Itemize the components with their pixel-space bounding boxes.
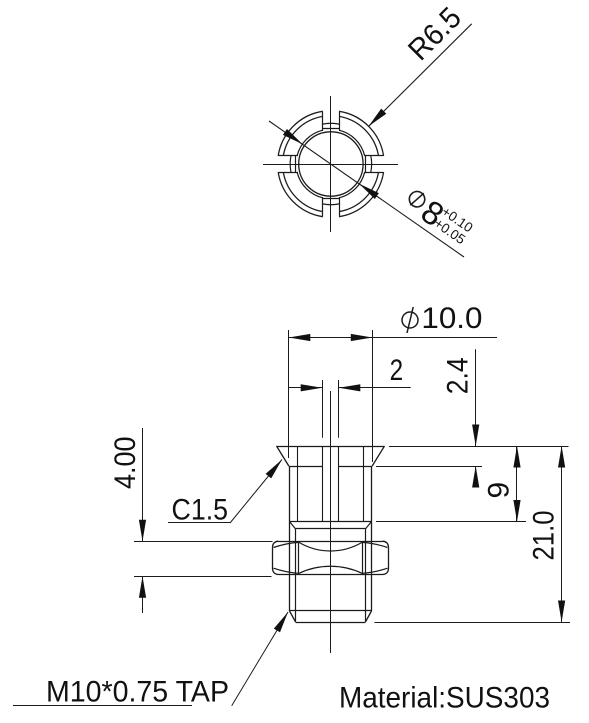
thread chamfer bottom line [296, 528, 366, 530]
svg-text:9: 9 [482, 482, 515, 499]
arrowheads 21.0 [558, 446, 565, 468]
bore circle (dia 8) [299, 132, 363, 196]
extension line bottom 21.0 [374, 622, 570, 624]
svg-text:M10*0.75 TAP: M10*0.75 TAP [46, 676, 229, 709]
dimension line 2 [289, 387, 322, 389]
slot edge left [322, 446, 324, 522]
bore line left [297, 446, 299, 522]
sleeve bottom line (slot bottom, 9 from top) [290, 521, 372, 523]
underline C1.5 [168, 522, 230, 524]
bottom chamfer right [365, 611, 371, 622]
flange top edge [277, 446, 385, 448]
diameter leader line dia 8 [269, 121, 464, 257]
svg-text:10.0: 10.0 [421, 302, 482, 335]
extension line 9 [376, 521, 526, 523]
body left edge (dia 10) [289, 466, 291, 611]
flange chamfer right [372, 446, 384, 466]
hex nut bottom edge [279, 574, 383, 576]
top view vertical centerline [330, 96, 332, 232]
hex right flat [388, 547, 390, 568]
svg-text:4.00: 4.00 [109, 437, 142, 490]
slot edges and slot end lines (4 slots) [364, 172, 384, 174]
bottom chamfer left [290, 611, 296, 622]
svg-text:21.0: 21.0 [527, 511, 560, 561]
arrowheads 2 [301, 384, 323, 391]
extension lines dia 10.0 [288, 330, 290, 458]
extension line 2.4 [376, 466, 482, 468]
extension lines for slot width 2 [322, 380, 324, 438]
leader line R6.5 [369, 24, 472, 127]
bore line right [363, 446, 365, 522]
hex nut top edge [279, 541, 383, 543]
flange underside left [289, 466, 323, 468]
svg-text:Material:SUS303: Material:SUS303 [339, 682, 550, 715]
svg-text:2: 2 [390, 354, 404, 387]
arrowhead R6.5 [369, 109, 387, 127]
extension line top (flange) [389, 446, 569, 448]
underline M10 [13, 705, 192, 707]
arrowhead M10 [274, 612, 288, 632]
arrowhead C1.5 [266, 460, 282, 479]
body right edge (dia 10) [371, 466, 373, 611]
thread line right [365, 529, 367, 622]
bore chamfer circle arc segments [339, 172, 365, 198]
arrowheads 4.00 [139, 520, 146, 542]
dimension line 4.00 [142, 428, 144, 541]
dimension line 2.4 [475, 349, 477, 446]
arrowhead dia8 lower [359, 184, 379, 199]
front view vertical centerline [330, 391, 332, 653]
hex left flat [272, 547, 274, 568]
flange underside right [339, 466, 373, 468]
thread chamfer right [365, 522, 371, 530]
thread chamfer left [290, 522, 296, 530]
slot bottom arcs [370, 156, 373, 172]
dimension line 9 [516, 446, 518, 522]
leader line M10 [232, 612, 288, 706]
arrowheads dia 10.0 [289, 334, 311, 341]
hex side facet chamfer arcs [274, 542, 300, 547]
label dia 10.0 [402, 312, 418, 328]
thread line left [295, 529, 297, 622]
outer step circle arc segments [339, 172, 378, 211]
hex facet line right [362, 541, 364, 574]
extension lines 4.00 [134, 541, 273, 543]
arrowhead dia8 upper [283, 129, 303, 144]
dimension line dia 10.0 [289, 337, 497, 339]
outer circle R6.5 arc segments [339, 172, 384, 217]
hex corner bevels [273, 541, 279, 547]
label dia 8 with tolerances [399, 182, 478, 252]
hex facet line left [298, 541, 300, 574]
top view horizontal centerline [263, 164, 398, 166]
svg-text:R6.5: R6.5 [402, 1, 468, 67]
svg-text:2.4: 2.4 [441, 357, 474, 394]
svg-text:C1.5: C1.5 [172, 494, 229, 527]
arrowheads 9 [513, 446, 520, 468]
dimension line 21.0 [561, 446, 563, 622]
arrowheads 2.4 [472, 425, 479, 447]
leader line C1.5 [230, 460, 282, 524]
bottom edge [296, 622, 366, 624]
hex middle facet chamfer arcs [299, 542, 362, 551]
slot edge right [338, 446, 340, 522]
bottom chamfer start line [290, 610, 372, 612]
flange chamfer left (C1.5) [277, 446, 289, 466]
